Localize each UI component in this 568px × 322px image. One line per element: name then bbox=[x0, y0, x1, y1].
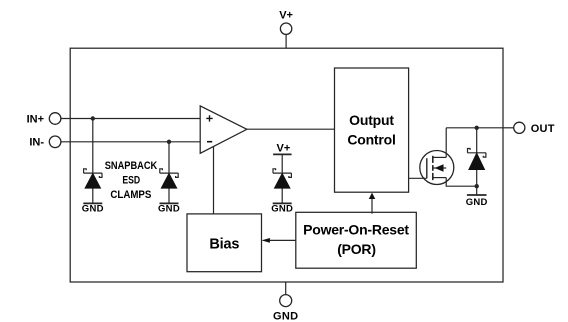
wire POR to Output Control (arrow) bbox=[369, 193, 376, 214]
svg-text:GND: GND bbox=[466, 197, 488, 208]
svg-text:V+: V+ bbox=[279, 10, 293, 22]
block Bias bbox=[187, 214, 262, 272]
wire POR to Bias (arrow) bbox=[262, 238, 296, 243]
svg-text:Output: Output bbox=[349, 112, 394, 128]
svg-text:SNAPBACK: SNAPBACK bbox=[105, 160, 158, 172]
snapback ESD clamp diode D1 (IN+) bbox=[84, 169, 103, 204]
svg-text:Power-On-Reset: Power-On-Reset bbox=[303, 221, 409, 237]
transistor Q1 (output NMOS) bbox=[420, 151, 454, 185]
snapback ESD clamp diode D3 (supply) bbox=[273, 169, 292, 204]
wire V+ pin to boundary bbox=[285, 34, 287, 48]
ground symbol D4 bbox=[466, 195, 488, 208]
ground symbol D1 bbox=[82, 203, 104, 214]
svg-text:ESD: ESD bbox=[122, 175, 140, 187]
svg-text:OUT: OUT bbox=[531, 123, 555, 135]
svg-text:V+: V+ bbox=[277, 142, 291, 154]
wire IN- to op-amp bbox=[61, 141, 200, 143]
terminal GND (bottom pin) bbox=[273, 295, 298, 322]
wire OUT junction down to clamp D4 bbox=[476, 128, 478, 153]
wire IN+ to op-amp bbox=[61, 118, 200, 120]
wire GND pin to boundary bbox=[285, 282, 287, 295]
wire op-amp output to Output Control bbox=[247, 128, 335, 130]
snapback ESD clamp diode D4 (output) bbox=[467, 149, 486, 196]
junction on IN+ net bbox=[91, 116, 95, 120]
wire Q1 source down bbox=[446, 178, 477, 187]
op-amp U1 bbox=[200, 106, 247, 153]
wire OUT stub outside boundary bbox=[503, 127, 514, 129]
wire op-amp to Bias bbox=[213, 146, 215, 214]
wire OUT net (drain to boundary) bbox=[446, 127, 503, 129]
junction on OUT net bbox=[475, 126, 479, 130]
svg-text:(POR): (POR) bbox=[337, 241, 376, 257]
terminal V+ (top pin) bbox=[279, 10, 293, 35]
svg-text:GND: GND bbox=[82, 203, 104, 214]
block Output Control bbox=[335, 68, 409, 192]
ground symbol D3 bbox=[271, 203, 293, 214]
wire IN- junction down to clamp D2 bbox=[168, 142, 170, 173]
supply tap V+ (internal) bbox=[273, 142, 292, 154]
junction Q1 source / D4 anode bbox=[475, 184, 479, 188]
svg-text:IN+: IN+ bbox=[27, 113, 44, 125]
wire V+ tap to clamp D3 bbox=[281, 154, 283, 173]
svg-text:GND: GND bbox=[273, 310, 298, 322]
wire Output Control to MOSFET gate bbox=[409, 177, 427, 179]
ground symbol D2 bbox=[158, 203, 180, 214]
label SNAPBACK ESD CLAMPS bbox=[105, 160, 158, 201]
wire Q1 drain up to OUT net bbox=[445, 128, 447, 158]
wire IN+ junction down to clamp D1 bbox=[92, 119, 94, 174]
svg-text:IN-: IN- bbox=[29, 137, 44, 149]
svg-text:Bias: Bias bbox=[209, 236, 239, 252]
terminal IN+ bbox=[27, 113, 61, 126]
block Power-On-Reset (POR) bbox=[296, 212, 417, 268]
terminal IN- bbox=[29, 136, 61, 149]
IC boundary box bbox=[70, 48, 503, 282]
snapback ESD clamp diode D2 (IN-) bbox=[160, 169, 179, 204]
svg-text:Control: Control bbox=[347, 132, 395, 148]
junction on IN- net bbox=[167, 140, 171, 144]
svg-text:GND: GND bbox=[158, 203, 180, 214]
svg-text:CLAMPS: CLAMPS bbox=[110, 189, 151, 201]
svg-text:GND: GND bbox=[271, 203, 293, 214]
terminal OUT bbox=[514, 122, 555, 135]
